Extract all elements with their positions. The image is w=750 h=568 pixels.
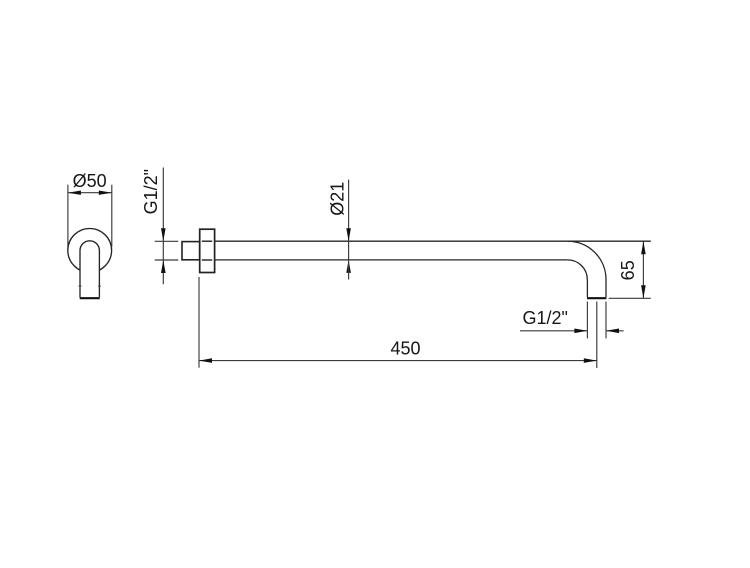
dimension line Ø21 upper — [348, 180, 350, 241]
arm tube bottom edge — [215, 259, 568, 261]
extension line outlet left — [586, 302, 588, 339]
extension line outlet right — [605, 302, 607, 339]
arrowhead 450 left — [199, 358, 212, 363]
arrowhead Ø21 upper — [346, 228, 351, 241]
extension line 450 left — [198, 277, 200, 368]
hidden line dash upper — [202, 240, 212, 242]
extension line wall thread top — [155, 240, 179, 242]
arrowhead 65 bottom — [641, 285, 646, 298]
down tube end cap — [587, 297, 606, 299]
arrowhead 65 top — [641, 241, 646, 254]
bend inner arc — [568, 260, 588, 280]
arm tube top edge + 65 extension line — [215, 240, 651, 242]
dimension line G1/2" vertical — [162, 168, 164, 285]
extension line Ø50 left — [67, 185, 69, 248]
dimension line 450 — [199, 360, 597, 362]
dimension line 65 — [642, 241, 644, 298]
svg-text:G1/2": G1/2" — [522, 308, 567, 328]
bend outer arc — [568, 241, 606, 279]
arrowhead G1/2" lower — [161, 260, 166, 273]
thread mark left (end view) — [79, 285, 82, 287]
svg-text:Ø21: Ø21 — [328, 182, 348, 216]
dimension line Ø50 — [68, 192, 112, 194]
extension line Ø50 right — [111, 185, 113, 247]
extension line 65 bottom — [609, 297, 651, 299]
arrowhead G1/2" outlet left — [574, 329, 587, 334]
dimension line Ø21 lower tail — [348, 260, 350, 280]
arrowhead Ø50 right — [99, 191, 112, 195]
thread mark right (end view) — [98, 285, 101, 287]
svg-text:G1/2": G1/2" — [141, 169, 161, 214]
arrowhead 450 right — [584, 358, 597, 363]
svg-text:65: 65 — [618, 260, 638, 280]
tube end cap (end view) — [80, 297, 100, 299]
arrowhead Ø50 left — [68, 191, 81, 195]
dimension line G1/2" outlet left — [520, 330, 587, 332]
svg-text:450: 450 — [390, 339, 420, 359]
svg-text:Ø50: Ø50 — [73, 171, 107, 191]
dimension line Ø21 through pipe — [348, 241, 350, 260]
arrowhead Ø21 lower — [346, 260, 351, 273]
down tube right edge — [605, 280, 607, 298]
wall thread spigot — [182, 242, 200, 260]
extension line wall thread bottom — [155, 259, 179, 261]
escutcheon flange (front view) — [200, 229, 215, 272]
hidden line dash lower — [202, 259, 212, 261]
down tube left edge — [586, 280, 588, 298]
flange circle Ø50 (end view) — [68, 229, 112, 273]
arm tube end view (stadium) — [80, 241, 99, 298]
arrowhead G1/2" outlet right — [606, 329, 619, 334]
centerline outlet — [596, 302, 598, 369]
arrowhead G1/2" upper — [161, 228, 166, 241]
dimension line G1/2" outlet right — [606, 330, 624, 332]
